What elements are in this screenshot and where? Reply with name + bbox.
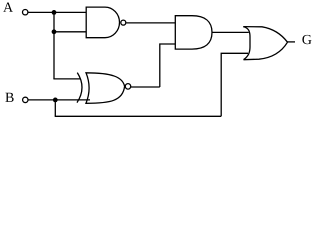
wire A branch to XNOR top input bbox=[53, 78, 80, 80]
wire A vertical branch bbox=[53, 12, 55, 79]
input terminal A bbox=[23, 10, 28, 15]
junction dot node B1 bbox=[53, 98, 58, 103]
wire XNOR output bbox=[131, 86, 160, 88]
input label A bbox=[3, 3, 13, 12]
input label B bbox=[5, 93, 13, 102]
AND gate U3 body bbox=[175, 16, 212, 49]
junction dot node A2 bbox=[52, 29, 57, 34]
XNOR gate U2 body bbox=[86, 73, 125, 104]
junction dot node A1 bbox=[52, 10, 57, 15]
NAND gate U1 bubble bbox=[121, 20, 126, 25]
wire OR output bbox=[288, 41, 296, 43]
wire AND output to OR top input bbox=[212, 31, 249, 33]
wire NAND output to AND top input bbox=[126, 22, 175, 24]
wire to NAND lower input bbox=[54, 31, 86, 33]
XNOR gate U2 bubble bbox=[125, 84, 131, 90]
wire riser to OR lower input bbox=[221, 53, 248, 116]
NAND gate U1 body bbox=[86, 7, 119, 38]
wire B down bbox=[54, 100, 56, 116]
OR gate U4 input arc bbox=[243, 27, 250, 60]
wire B bottom route bbox=[55, 115, 222, 117]
wire riser to AND lower input bbox=[160, 44, 176, 87]
output label G bbox=[302, 35, 311, 44]
input terminal B bbox=[23, 97, 28, 102]
XNOR gate U2 input arc bbox=[77, 73, 82, 103]
OR gate U4 body bbox=[243, 27, 287, 60]
wire B to XNOR lower input bbox=[28, 99, 90, 101]
wire A to NAND top input bbox=[28, 11, 86, 13]
